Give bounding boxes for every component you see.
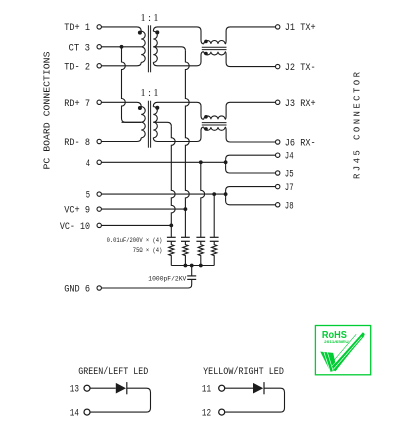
svg-text:J1 TX+: J1 TX+ (285, 23, 316, 34)
svg-text:13: 13 (70, 384, 79, 395)
svg-text:5: 5 (86, 191, 90, 202)
svg-text:11: 11 (202, 384, 211, 395)
svg-text:GREEN/LEFT LED: GREEN/LEFT LED (78, 366, 148, 378)
svg-text:14: 14 (70, 408, 79, 419)
svg-text:J6 RX-: J6 RX- (285, 139, 316, 150)
svg-text:J8: J8 (285, 201, 294, 212)
svg-text:1 : 1: 1 : 1 (141, 87, 159, 99)
svg-text:1000pF/2KV: 1000pF/2KV (148, 275, 187, 283)
svg-text:VC+ 9: VC+ 9 (64, 206, 90, 217)
svg-text:CT 3: CT 3 (69, 43, 91, 54)
svg-text:YELLOW/RIGHT LED: YELLOW/RIGHT LED (203, 366, 284, 378)
svg-text:J2 TX-: J2 TX- (285, 63, 316, 74)
svg-text:VC- 10: VC- 10 (60, 222, 90, 233)
svg-text:GND 6: GND 6 (64, 285, 90, 296)
svg-text:0.01uF/200V × (4): 0.01uF/200V × (4) (107, 237, 163, 245)
svg-text:J4: J4 (285, 152, 294, 163)
svg-text:J3 RX+: J3 RX+ (285, 99, 316, 110)
svg-text:2011/65/EU: 2011/65/EU (324, 339, 349, 344)
svg-text:TD+ 1: TD+ 1 (64, 23, 90, 34)
svg-text:12: 12 (202, 408, 211, 419)
svg-text:RD- 8: RD- 8 (64, 138, 90, 149)
svg-text:PC BOARD CONNECTIONS: PC BOARD CONNECTIONS (42, 52, 52, 170)
svg-text:TD- 2: TD- 2 (64, 62, 90, 73)
svg-text:J7: J7 (285, 183, 294, 194)
svg-text:1 : 1: 1 : 1 (141, 12, 159, 24)
svg-text:J5: J5 (285, 170, 294, 181)
svg-text:4: 4 (86, 159, 90, 170)
svg-text:RD+ 7: RD+ 7 (64, 99, 90, 110)
svg-text:75Ω × (4): 75Ω × (4) (133, 247, 163, 255)
